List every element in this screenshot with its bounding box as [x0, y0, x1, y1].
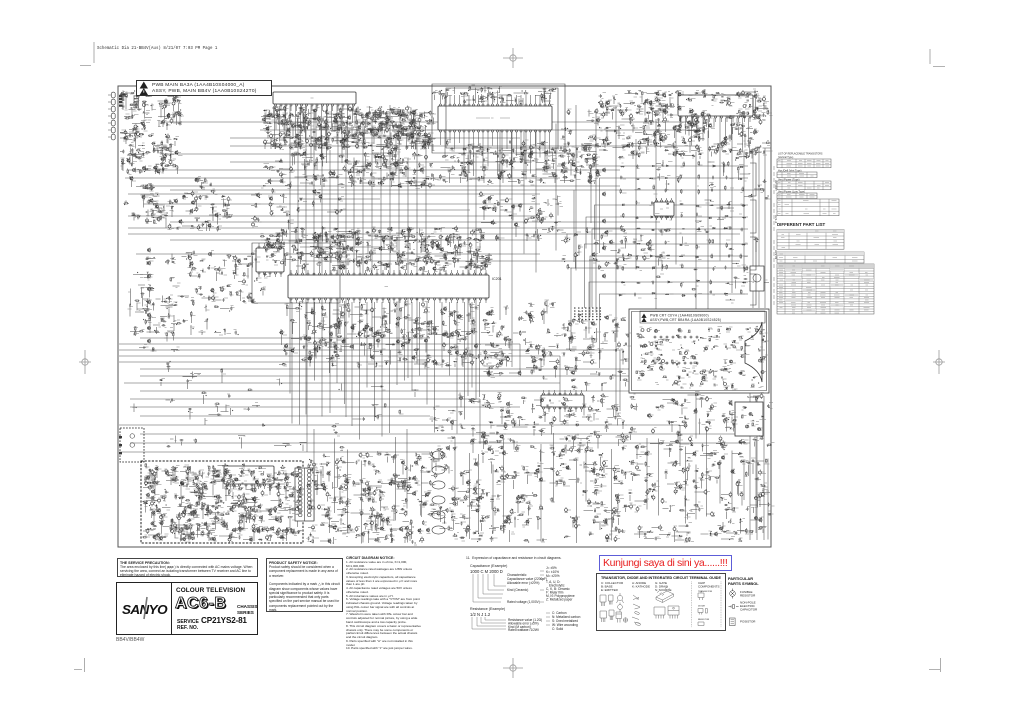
svg-text:DIFFERENT PART LIST: DIFFERENT PART LIST: [777, 222, 826, 227]
svg-text:1/2 N J 1.2: 1/2 N J 1.2: [470, 612, 491, 617]
svg-text:DIODE: DIODE: [698, 606, 705, 608]
svg-text:Vert./Power (Type): Vert./Power (Type): [778, 178, 800, 182]
svg-text:Rated wattage (1/2W): Rated wattage (1/2W): [508, 628, 539, 631]
svg-text:K: KATHODE: K: KATHODE: [632, 585, 650, 589]
svg-text:RESISTOR: RESISTOR: [740, 594, 756, 598]
svg-text:1000 C M 2000 D: 1000 C M 2000 D: [470, 569, 503, 574]
svg-text:Resistance (Example): Resistance (Example): [470, 607, 505, 611]
svg-text:Kind (Ceramic): Kind (Ceramic): [507, 588, 528, 592]
svg-text:POSISTOR: POSISTOR: [740, 620, 756, 624]
svg-text:TRANSISTOR, DIODE AND INTEGRAT: TRANSISTOR, DIODE AND INTEGRATED CIRCUIT…: [601, 576, 721, 580]
svg-text:IC201: IC201: [492, 277, 502, 281]
svg-text:Z: Metalized paper: Z: Metalized paper: [546, 598, 573, 602]
svg-text:Rated voltage (1,000V): Rated voltage (1,000V): [507, 600, 540, 604]
svg-text:Hor./Defl (Vert Type): Hor./Defl (Vert Type): [778, 169, 802, 173]
svg-text:E: EMITTER: E: EMITTER: [601, 588, 619, 592]
svg-text:Capacitance (Example): Capacitance (Example): [470, 564, 507, 568]
svg-text:CAPACITOR: CAPACITOR: [740, 608, 758, 612]
svg-text:Allowable error (±20%): Allowable error (±20%): [507, 581, 539, 585]
svg-text:RESISTOR: RESISTOR: [698, 619, 710, 621]
svg-text:ASSY,PWB,CRT BB4RA (1AA0B10S24: ASSY,PWB,CRT BB4RA (1AA0B10S24525): [650, 318, 721, 322]
svg-text:PWB CRT C6YH (1AA4B10S09000): PWB CRT C6YH (1AA4B10S09000): [650, 314, 709, 318]
svg-text:COMPONENTS: COMPONENTS: [698, 584, 720, 588]
svg-text:(Vertical Type): (Vertical Type): [778, 156, 793, 159]
svg-text:Vert./Power (Low Type): Vert./Power (Low Type): [778, 190, 805, 194]
svg-text:C: Solid: C: Solid: [552, 627, 563, 631]
svg-text:M= ±20%: M= ±20%: [546, 574, 560, 578]
svg-text:TRANSISTOR: TRANSISTOR: [698, 590, 712, 593]
